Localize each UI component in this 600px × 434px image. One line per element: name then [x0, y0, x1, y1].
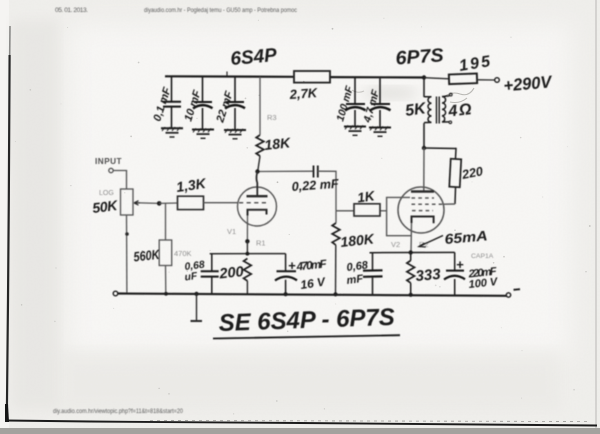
capacitor 470mF plates: [277, 270, 297, 272]
svg-text:18K: 18K: [264, 134, 292, 153]
svg-text:1K: 1K: [356, 188, 376, 205]
wire anode node into tube V2: [423, 148, 425, 191]
tube V2 grid dashes row2 (screen, runs out to 220): [412, 203, 445, 205]
wire anode lead: [256, 172, 257, 197]
node V2 cathode: [409, 250, 413, 254]
transformer primary winding 5K: [424, 97, 432, 123]
tube V2 grid dashes row1: [412, 197, 435, 199]
faint pencil scribble above transformer: [352, 90, 364, 92]
capacitor 4,7mF lead: [379, 78, 381, 126]
label minus: [514, 288, 521, 291]
tube V2 grid dashes row3: [412, 210, 433, 212]
ground below 0,1mF: [161, 127, 183, 137]
svg-text:+: +: [288, 258, 296, 273]
resistor 180K zigzag: [332, 223, 340, 245]
ground symbol bar: [191, 320, 203, 322]
wire V2 cathode down: [410, 223, 413, 253]
svg-text:333: 333: [415, 266, 442, 285]
coupling capacitor wire right + down: [318, 171, 336, 211]
resistor 18K zigzag: [256, 135, 264, 156]
wire transformer primary to anode node: [423, 123, 425, 148]
tube V1 grid dashes: [239, 202, 268, 204]
capacitor 10mF lead: [202, 77, 204, 129]
wire R1 node down: [246, 241, 248, 253]
svg-text:V1: V1: [227, 227, 236, 236]
capacitor 0,68uF V1 plates: [201, 271, 219, 276]
smudge near transformer: [362, 86, 418, 100]
wire 18K to V1 anode node: [258, 156, 260, 172]
terminal +290V circle: [495, 78, 500, 83]
scan left edge line: [7, 55, 10, 422]
scan bottom edge line: [6, 421, 597, 426]
wire rail 2.7K to node: [330, 76, 424, 79]
wire 180K to ground rail: [335, 245, 337, 294]
tube V1 envelope: [238, 187, 277, 226]
wire rail down to 18K: [259, 77, 261, 135]
wire to 1K: [336, 210, 354, 212]
wire 220 to tube screen grid: [454, 188, 457, 205]
svg-text:diyaudio.com.hr - Pogledaj tem: diyaudio.com.hr - Pogledaj temu - GU50 a…: [144, 7, 298, 14]
wire node to 1,3K: [159, 202, 177, 204]
resistor 1,3K box: [178, 196, 204, 209]
coupling capacitor 0,22mF plates: [314, 166, 318, 178]
tube V2 anode plate: [411, 190, 434, 193]
capacitor 0,1mF plates: [163, 102, 181, 107]
svg-text:6P7S: 6P7S: [395, 45, 445, 69]
svg-text:mF: mF: [346, 273, 364, 287]
wire 200 to rail: [246, 281, 248, 294]
tube V2 cathode bracket: [412, 217, 434, 224]
node transformer/anode junction: [422, 146, 426, 150]
resistor 195 box: [449, 74, 477, 85]
ground below 100mF: [344, 125, 366, 135]
rail node dots: [164, 292, 168, 296]
svg-text:2,7K: 2,7K: [288, 85, 319, 102]
tube V1 cathode bracket: [248, 210, 267, 216]
node V1 anode junction: [255, 169, 259, 173]
node cathode net: [246, 252, 250, 256]
label 22 mF rotated: [214, 90, 236, 125]
wire input to pot: [113, 171, 126, 190]
svg-text:CAP1A: CAP1A: [471, 253, 494, 260]
capacitor 220mF plates: [446, 270, 464, 272]
wire 560K tap down: [165, 203, 167, 240]
node R1 junction: [245, 239, 249, 243]
scan bottom band: [0, 428, 600, 434]
svg-text:R3: R3: [267, 113, 277, 122]
svg-text:4Ω: 4Ω: [447, 101, 473, 120]
arrow 65mA: [419, 236, 443, 247]
ground below 22mF: [224, 129, 246, 139]
V2 cathode network top wire: [370, 251, 455, 253]
terminal rail left circle: [113, 291, 118, 296]
capacitor 470mF lead: [285, 254, 287, 295]
node top rail junction: [422, 75, 426, 79]
resistor 200 zigzag: [244, 259, 252, 281]
scan right edge line: [595, 0, 597, 434]
label 4,7 mF rotated: [361, 88, 382, 125]
capacitor 0,1mF lead: [171, 77, 173, 128]
potentiometer body: [121, 189, 134, 215]
capacitor 100mF lead: [354, 78, 356, 126]
tube V2 beam plate box: [387, 197, 411, 235]
capacitor 10mF plates (polarized): [194, 101, 212, 103]
wire node to 220 resistor: [424, 148, 456, 159]
wires 333: [410, 253, 412, 295]
white margin left of scan edge: [0, 0, 9, 434]
wire 560K to rail: [165, 266, 167, 294]
resistor 220 box: [449, 159, 461, 188]
svg-text:6S4P: 6S4P: [230, 45, 278, 70]
wire 1,3K to V1 grid: [204, 202, 239, 204]
B+ top rail wire: [165, 75, 294, 78]
svg-text:200: 200: [218, 264, 245, 283]
svg-text:50K: 50K: [91, 197, 119, 216]
svg-text:470K: 470K: [174, 249, 192, 258]
tube V2 envelope: [398, 187, 444, 233]
wire V1 cathode down: [246, 216, 248, 242]
ground rail bottom: [118, 294, 507, 296]
coupling capacitor 0,22mF wire left: [258, 170, 314, 172]
svg-text:V2: V2: [391, 240, 400, 249]
capacitor 22mF lead: [234, 77, 236, 129]
node wiper junction: [157, 201, 162, 206]
svg-text:INPUT: INPUT: [95, 157, 122, 166]
capacitor 100mF plates (polarized): [346, 103, 365, 105]
ground symbol stem: [196, 294, 198, 321]
capacitor 0,68mF V2 lead: [372, 253, 374, 295]
capacitor 22mF plates (polarized): [226, 101, 244, 103]
capacitor 220mF lead: [454, 252, 456, 295]
pen mark stub on rail: [226, 72, 228, 77]
capacitor 0,68uF V1 lead: [211, 254, 213, 294]
tube V1 anode plate: [247, 195, 268, 197]
faint dotted line above bottom edge: [150, 421, 590, 422]
label 100 mF rotated: [334, 84, 356, 123]
svg-text:05. 01. 2013.: 05. 01. 2013.: [55, 7, 88, 14]
capacitor 4,7mF plates (polarized): [371, 103, 390, 105]
resistor 333 zigzag: [407, 261, 415, 283]
label 10 mF rotated: [182, 89, 203, 123]
V1 cathode network top wire: [210, 253, 286, 255]
blob on pot wire: [125, 232, 129, 236]
wire 195 to +290V terminal: [477, 79, 495, 81]
svg-text:LOG: LOG: [99, 190, 114, 197]
ground below 4,7mF: [369, 126, 391, 136]
svg-text:diy.audio.com.hr/viewtopic.php: diy.audio.com.hr/viewtopic.php?f=11&t=81…: [53, 409, 184, 415]
input terminal circle: [109, 168, 113, 172]
wire 1K to V2 grid box: [380, 210, 387, 212]
secondary top terminal: [450, 93, 453, 96]
wire node down to transformer primary: [423, 78, 425, 98]
svg-text:560K: 560K: [133, 247, 161, 265]
resistor 1K box: [354, 204, 380, 216]
svg-text:+: +: [456, 257, 464, 272]
transformer secondary winding 4ohm: [442, 96, 450, 122]
terminal rail right circle: [506, 293, 510, 297]
pot wiper arrow: [134, 201, 140, 205]
paper lighter center: [70, 25, 570, 355]
label 0,1 mF rotated: [151, 86, 173, 123]
transformer core lines: [437, 97, 440, 124]
wire node to 195 resistor: [424, 78, 449, 79]
ground below 10mF: [192, 128, 214, 138]
resistor 2,7K box: [294, 71, 330, 83]
svg-text:R1: R1: [256, 239, 266, 248]
bottom-left thick wedge of scan edge: [5, 404, 9, 422]
wire 180K down: [335, 211, 337, 223]
title underline: [213, 335, 400, 338]
resistor 560K box: [159, 240, 172, 266]
bottom wash: [60, 350, 560, 410]
wire wiper to node: [140, 202, 159, 205]
capacitor 0,68mF V2 plates: [363, 270, 383, 277]
secondary bottom terminal: [449, 121, 452, 124]
faint upper part of scan edge: [9, 26, 11, 55]
svg-text:5K: 5K: [404, 100, 428, 120]
wire pot bottom to rail: [126, 215, 128, 294]
faint pencil scribble right of 195: [444, 88, 474, 103]
svg-text:uF: uF: [184, 271, 199, 284]
left strip wash: [11, 20, 59, 410]
